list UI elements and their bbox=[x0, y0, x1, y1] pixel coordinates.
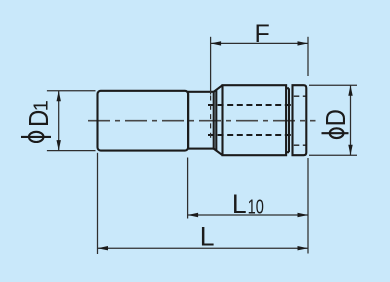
svg-text:L: L bbox=[200, 222, 215, 252]
svg-text:F: F bbox=[255, 20, 270, 48]
svg-text:D: D bbox=[25, 110, 55, 127]
svg-text:10: 10 bbox=[248, 197, 264, 219]
svg-text:1: 1 bbox=[30, 100, 52, 111]
svg-text:D: D bbox=[321, 109, 351, 126]
svg-text:L: L bbox=[232, 189, 247, 219]
